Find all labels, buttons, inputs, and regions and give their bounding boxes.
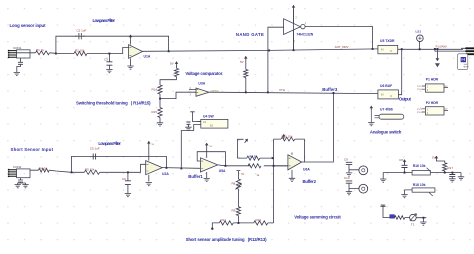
svg-text:CON1: CON1 [13, 46, 22, 50]
svg-text:NAND GATE: NAND GATE [236, 32, 264, 37]
svg-text:ANT_DRV: ANT_DRV [335, 45, 349, 49]
svg-text:IN: IN [381, 93, 384, 97]
svg-text:CON2: CON2 [13, 165, 22, 169]
svg-text:R11 10k: R11 10k [282, 135, 293, 139]
svg-text:R9: R9 [232, 209, 236, 213]
svg-text:R1 1k: R1 1k [36, 48, 44, 52]
svg-text:Voltage comparator: Voltage comparator [185, 71, 222, 76]
svg-text:P1.1: P1.1 [417, 86, 422, 88]
svg-text:R15: R15 [152, 110, 158, 114]
svg-text:C8: C8 [399, 158, 403, 162]
svg-text:U5A: U5A [219, 169, 226, 173]
svg-text:R4 1k: R4 1k [39, 166, 47, 170]
svg-text:R16 10k: R16 10k [413, 164, 426, 168]
svg-text:Buffer1: Buffer1 [188, 174, 203, 179]
svg-text:P2 HDR: P2 HDR [426, 101, 439, 105]
svg-text:Voltage summing circuit: Voltage summing circuit [294, 215, 341, 220]
svg-text:Long sensor input: Long sensor input [10, 23, 47, 28]
svg-text:R17: R17 [448, 166, 454, 170]
svg-text:P1.3: P1.3 [417, 109, 422, 111]
svg-text:P1.4: P1.4 [417, 112, 422, 114]
svg-text:U2A: U2A [162, 172, 169, 176]
svg-text:Short Sensor Input: Short Sensor Input [11, 147, 54, 152]
svg-text:5V: 5V [432, 156, 436, 160]
svg-text:T1: T1 [411, 223, 415, 227]
svg-text:U1A: U1A [144, 55, 151, 59]
svg-text:C9: C9 [344, 158, 348, 162]
svg-text:O: O [390, 49, 392, 53]
svg-text:C6: C6 [122, 177, 126, 181]
svg-text:Buffer2: Buffer2 [303, 179, 317, 184]
svg-text:5V: 5V [170, 62, 174, 66]
svg-text:Analogue switch: Analogue switch [370, 130, 402, 135]
svg-text:C5 1uF: C5 1uF [90, 146, 100, 150]
svg-text:C3: C3 [104, 58, 108, 62]
svg-text:Lowpass Filter: Lowpass Filter [98, 141, 121, 146]
svg-text:P1.0/AN0: P1.0/AN0 [436, 44, 448, 48]
svg-text:IN: IN [381, 48, 384, 52]
svg-text:R2 10k: R2 10k [75, 49, 85, 53]
svg-text:A1: A1 [203, 120, 207, 124]
svg-text:LM2903: LM2903 [211, 90, 220, 92]
svg-text:P1.2: P1.2 [417, 89, 422, 91]
svg-text:VTH: VTH [279, 88, 285, 92]
svg-text:Buffer3: Buffer3 [322, 87, 338, 92]
svg-text:U6 BUF: U6 BUF [380, 84, 392, 88]
svg-text:Switching threshold tuning (: Switching threshold tuning ( R14/R15) [76, 100, 151, 105]
svg-text:U7 4066: U7 4066 [380, 108, 393, 112]
svg-text:R5 10k: R5 10k [85, 167, 95, 171]
svg-text:B1: B1 [210, 124, 214, 128]
svg-text:R12: R12 [221, 218, 227, 222]
svg-text:74HC132N: 74HC132N [296, 32, 313, 36]
svg-text:O: O [390, 94, 392, 98]
svg-text:C2 1uF: C2 1uF [77, 28, 87, 32]
svg-text:5V: 5V [240, 60, 244, 64]
svg-text:U6A: U6A [303, 168, 310, 172]
svg-text:Lowpass Filter: Lowpass Filter [93, 18, 116, 23]
svg-text:Output: Output [399, 97, 412, 102]
svg-text:U4 SW: U4 SW [203, 115, 215, 119]
svg-text:R8: R8 [232, 182, 236, 186]
svg-text:U5 TXDR: U5 TXDR [380, 39, 395, 43]
svg-text:P1 HDR: P1 HDR [426, 78, 439, 82]
svg-text:R6 1k: R6 1k [250, 154, 258, 158]
svg-text:LS1: LS1 [416, 30, 422, 34]
svg-text:Short sensor amplitude tuning: Short sensor amplitude tuning (R12/R13) [186, 237, 268, 242]
svg-text:R13: R13 [256, 218, 262, 222]
svg-text:U3A: U3A [198, 82, 205, 86]
svg-text:R18 10k: R18 10k [413, 183, 426, 187]
svg-text:R14: R14 [152, 88, 158, 92]
svg-text:5V: 5V [241, 173, 244, 176]
svg-text:C10: C10 [344, 176, 350, 180]
